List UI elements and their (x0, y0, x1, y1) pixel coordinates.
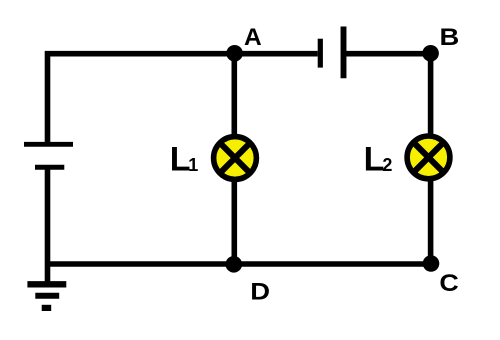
svg-text:2: 2 (382, 155, 392, 175)
svg-text:L: L (364, 140, 385, 178)
svg-text:C: C (439, 270, 459, 297)
svg-text:A: A (244, 24, 262, 51)
svg-text:D: D (250, 278, 270, 305)
svg-text:B: B (440, 24, 460, 51)
svg-text:1: 1 (188, 155, 198, 175)
